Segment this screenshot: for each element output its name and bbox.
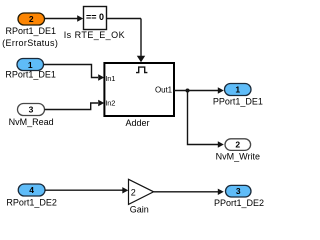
svg-text:2: 2 [131,187,136,197]
svg-text:In2: In2 [105,99,115,108]
svg-text:== 0: == 0 [86,12,104,22]
wire ==0 to Adder trigger [107,19,146,63]
label RPort1_DE1 (ErrorStatus) [2,26,58,48]
svg-text:NvM_Write: NvM_Write [216,152,260,162]
compare-to-zero block Is RTE_E_OK [84,7,107,30]
svg-text:RPort1_DE1: RPort1_DE1 [6,26,57,36]
outport 1 PPort1_DE1 [225,84,252,96]
outport 3 PPort1_DE2 [226,185,252,197]
svg-text:1: 1 [235,84,240,94]
inport 3 NvM_Read [18,104,45,116]
wire Gain to PPort1_DE2 [154,189,224,195]
inport 4 RPort1_DE2 [18,184,45,196]
svg-text:2: 2 [29,14,34,24]
junction node [186,89,190,93]
svg-text:(ErrorStatus): (ErrorStatus) [2,38,58,48]
trigger symbol [136,67,147,73]
wire port2 to ==0 block [45,15,84,21]
svg-text:2: 2 [235,139,240,149]
subsystem Adder [104,63,174,116]
svg-text:Out1: Out1 [155,86,173,95]
svg-text:3: 3 [29,104,34,114]
svg-text:4: 4 [29,185,34,195]
svg-text:Is RTE_E_OK: Is RTE_E_OK [64,30,125,40]
svg-text:RPort1_DE1: RPort1_DE1 [5,70,56,80]
wire port3 to In2 [45,100,105,110]
gain block Gain [129,179,154,204]
svg-text:1: 1 [28,60,33,70]
svg-text:3: 3 [236,186,241,196]
wire Out1 to PPort1_DE1 [174,87,224,93]
wire junction to NvM_Write [188,91,224,148]
inport 2 RPort1_DE1 (ErrorStatus) [18,13,45,25]
svg-text:Gain: Gain [130,205,149,215]
svg-text:RPort1_DE2: RPort1_DE2 [6,197,57,207]
svg-text:In1: In1 [105,74,115,83]
inport 1 RPort1_DE1 [17,59,44,71]
wire port1 to In1 [44,65,105,81]
svg-text:PPort1_DE2: PPort1_DE2 [214,198,264,208]
wire port4 to Gain [45,187,128,193]
outport 2 NvM_Write [225,139,251,151]
svg-text:Adder: Adder [125,118,149,128]
svg-text:NvM_Read: NvM_Read [9,117,54,127]
svg-text:PPort1_DE1: PPort1_DE1 [213,97,263,107]
